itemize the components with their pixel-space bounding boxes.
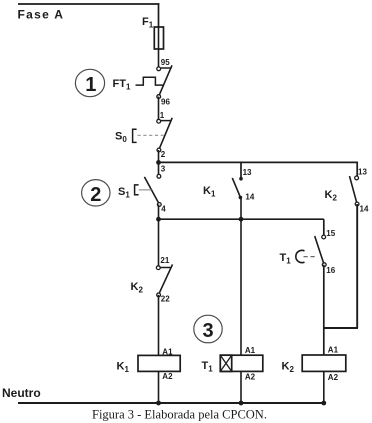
pin A1 label K2 coil (328, 346, 339, 355)
wire T1 contact down to K2 coil branch (323, 265, 325, 355)
label K1 contact (203, 185, 216, 199)
svg-text:1: 1 (85, 74, 96, 96)
wire bus1 to K1 contact (240, 162, 242, 178)
svg-text:15: 15 (326, 229, 335, 238)
wire bus2 to K2 21 contact (158, 219, 160, 266)
label K2 coil (282, 361, 295, 375)
contact K2 (NO, 13-14) (350, 176, 360, 206)
svg-text:14: 14 (360, 205, 369, 214)
label K2 contact 13-14 (325, 189, 338, 203)
label FT1 (113, 78, 131, 92)
wire bus1 to S1 (158, 162, 160, 174)
svg-text:2: 2 (161, 150, 166, 159)
timed contact T1 (NO delayed, 15-16) (315, 235, 326, 267)
pin A2 label K2 coil (328, 373, 339, 382)
svg-text:Figura 3 - Elaborada pela CPCO: Figura 3 - Elaborada pela CPCON. (92, 408, 267, 422)
wire bus2 corner down to T1 contact (323, 219, 325, 235)
svg-text:3: 3 (203, 320, 214, 342)
label K1 coil (117, 361, 130, 375)
label T1 contact (280, 252, 292, 266)
svg-text:21: 21 (160, 256, 169, 265)
fuse F1 (154, 27, 163, 49)
label T1 coil (202, 360, 214, 374)
label S0 (115, 131, 127, 145)
balloon callout 2 (82, 180, 110, 206)
svg-text:13: 13 (243, 168, 252, 177)
wire S1 to bus junction (158, 205, 160, 220)
pin A2 label T1 coil (245, 373, 256, 382)
pushbutton S0 (NC, 1-2) (133, 118, 173, 152)
pin 3 label (161, 165, 166, 174)
pin 96 label (161, 98, 170, 107)
svg-text:A2: A2 (245, 373, 256, 382)
wire Fase A horizontal (18, 3, 159, 5)
pin 2 label (161, 150, 166, 159)
node Fase A label (18, 8, 65, 22)
label K2 interlock (131, 281, 144, 295)
svg-text:95: 95 (161, 58, 170, 67)
wire K2 coil to neutro (323, 371, 325, 403)
pin 21 label (160, 256, 169, 265)
svg-text:A2: A2 (162, 372, 173, 381)
wire K2 22 down to K1 coil (158, 295, 160, 356)
pin 14 label K1 (245, 193, 254, 202)
contact K2 (NC, 21-22) interlock (156, 264, 172, 296)
wire K2 contact down right branch (356, 204, 358, 328)
svg-text:14: 14 (245, 193, 254, 202)
pin 22 label (161, 295, 170, 304)
svg-text:96: 96 (161, 98, 170, 107)
junction node neutro-K2 (321, 401, 326, 406)
svg-text:3: 3 (161, 165, 166, 174)
junction node bus2 middle (239, 217, 244, 222)
svg-text:1: 1 (160, 111, 165, 120)
pushbutton S1 (NO, 3-4) (135, 174, 162, 206)
label F1 (142, 16, 154, 30)
wire S0 to bus junction (158, 150, 160, 163)
node Neutro label (2, 386, 41, 400)
wire fuse to FT1 (158, 49, 160, 67)
contact K1 (NO, 13-14) (232, 177, 243, 199)
junction node 3 (156, 160, 161, 165)
svg-text:2: 2 (90, 184, 101, 206)
pin 16 label (326, 266, 335, 275)
wire bus1 to K2 contact (356, 162, 358, 177)
coil K2 (302, 355, 346, 371)
timer coil T1 (220, 355, 262, 371)
junction node bus2 left (156, 217, 161, 222)
pin A2 label K1 coil (162, 372, 173, 381)
wire K1 contact down through bus2 (240, 197, 242, 219)
wire right branch bottom horizontal (324, 327, 358, 329)
pin A1 label K1 coil (162, 347, 173, 356)
wire FT1 to S0 (158, 97, 160, 121)
pin A1 label T1 coil (245, 346, 256, 355)
wire middle branch down to T1 coil (240, 219, 242, 355)
pin 13 label K2 (358, 168, 367, 177)
wire bus line 2nd (159, 218, 324, 220)
thermal overload contact FT1 (NC, 95-96) (157, 65, 172, 98)
svg-text:13: 13 (358, 168, 367, 177)
svg-text:Fase A: Fase A (18, 8, 65, 22)
pin 95 label (161, 58, 170, 67)
wire K1 coil to neutro (158, 371, 160, 403)
wire Neutro line (18, 402, 324, 404)
label S1 (118, 186, 130, 200)
wire bus line 3 (159, 161, 358, 163)
junction node neutro-T1 (239, 401, 244, 406)
wire top vertical to fuse (158, 3, 160, 28)
pin 1 label (160, 111, 165, 120)
svg-text:A1: A1 (245, 346, 256, 355)
balloon callout 1 (75, 69, 104, 96)
thermal element symbol of FT1 (136, 77, 164, 85)
wire T1 coil to neutro (240, 371, 242, 403)
svg-text:4: 4 (161, 205, 166, 214)
pin 4 label (161, 205, 166, 214)
pin 13 label K1 (243, 168, 252, 177)
junction node neutro-K1 (156, 401, 161, 406)
coil K1 (138, 355, 180, 371)
pin 15 label (326, 229, 335, 238)
caption text (92, 408, 267, 422)
svg-text:16: 16 (326, 266, 335, 275)
svg-text:22: 22 (161, 295, 170, 304)
timer actuator arc of T1 (296, 250, 318, 262)
balloon callout 3 (194, 315, 222, 343)
pin 14 label K2 (360, 205, 369, 214)
svg-text:A2: A2 (328, 373, 339, 382)
svg-text:Neutro: Neutro (2, 386, 41, 400)
svg-text:A1: A1 (328, 346, 339, 355)
